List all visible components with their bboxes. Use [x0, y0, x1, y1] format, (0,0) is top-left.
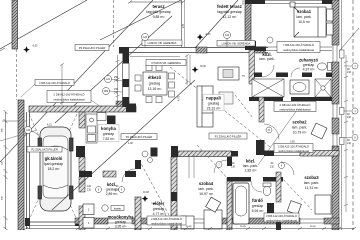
svg-text:210: 210: [231, 166, 236, 169]
window bottom mosokonyha: [108, 218, 132, 220]
svg-text:lam. park.: lam. park.: [259, 57, 274, 61]
door arc garage side: [29, 131, 41, 143]
wire leader 3db box: [21, 84, 35, 97]
door arc szoba3: [281, 162, 294, 175]
svg-text:terasz: terasz: [152, 4, 164, 9]
furniture bed szoba1: [290, 2, 333, 37]
wire garage dashed X: [29, 114, 77, 220]
node level mark -0,03: [197, 33, 211, 40]
wall kozl/wardrobe strip top: [254, 73, 262, 78]
svg-text:11,31 m²: 11,31 m²: [305, 186, 319, 190]
svg-text:3,95 m²: 3,95 m²: [115, 225, 128, 229]
room label eloter: [153, 201, 166, 216]
svg-text:ipari greslap: ipari greslap: [44, 162, 63, 166]
svg-text:210: 210: [115, 189, 120, 192]
furniture shower: [315, 79, 331, 97]
furniture cabinet szoba4: [181, 216, 194, 229]
svg-text:11,12 m²: 11,12 m²: [223, 15, 237, 19]
furniture toilet zuhanyzo: [318, 63, 327, 70]
svg-text:nappali: nappali: [206, 96, 221, 101]
svg-text:AJ1: AJ1: [106, 78, 111, 81]
svg-text:lam. park.: lam. park.: [296, 15, 311, 19]
label box gerenda 2: [217, 41, 255, 47]
svg-text:-0,05: -0,05: [32, 45, 38, 48]
svg-text:greslap: greslap: [153, 207, 165, 211]
label box athidalo 2db left: [47, 91, 91, 103]
room label kozl konyha: [106, 182, 119, 196]
label box athidalo furdo: [264, 213, 299, 222]
svg-text:étkező: étkező: [148, 75, 161, 80]
room label mosokonyha: [108, 215, 134, 229]
dim bottom line: [24, 227, 356, 230]
furniture sofa nappali: [197, 86, 213, 127]
wall garage door: [29, 221, 78, 223]
wire leader P2 box: [0, 130, 37, 141]
label box athidalo entrance: [147, 216, 186, 225]
svg-text:4,70: 4,70: [178, 96, 181, 101]
dim right circle 3: [344, 135, 358, 141]
label box gerenda 1: [142, 40, 182, 46]
svg-text:közl.: közl.: [246, 159, 255, 164]
furniture wardrobe kozl: [252, 79, 284, 97]
dim texts kozl doors: [87, 185, 120, 192]
svg-text:4,10: 4,10: [47, 124, 52, 127]
wall right exterior: [332, 0, 339, 45]
node door circle 9: [279, 163, 285, 169]
room label etkezo: [148, 75, 163, 91]
svg-text:nedvnyílokos kialakítással: nedvnyílokos kialakítással: [53, 98, 84, 102]
svg-text:szoba2: szoba2: [292, 120, 307, 125]
node symbol konyha circle b: [148, 158, 153, 163]
furniture coffee table: [219, 92, 233, 104]
svg-text:greslap: greslap: [103, 132, 115, 136]
node door mark AJ3 garage: [25, 127, 32, 134]
svg-text:fedett terasz: fedett terasz: [217, 4, 242, 9]
wire roof diagonal top-left: [0, 0, 87, 49]
wall szoba1 south: [254, 47, 266, 52]
window bottom szoba4: [186, 218, 210, 220]
svg-text:nedvnyílokos kialakítással: nedvnyílokos kialakítással: [279, 107, 310, 111]
svg-text:lam. park.: lam. park.: [292, 126, 307, 130]
window sill marks right: [340, 50, 345, 145]
window right szoba2 b: [332, 134, 334, 148]
svg-text:szoba3: szoba3: [304, 175, 319, 180]
node door circle szoba2: [266, 127, 272, 133]
svg-text:gk.tároló: gk.tároló: [45, 156, 63, 161]
wire dashed valley szoba2 left: [235, 95, 253, 118]
svg-text:210: 210: [347, 142, 352, 145]
svg-text:konyha: konyha: [101, 126, 116, 131]
wall konyha south: [79, 171, 92, 177]
node symbol szoba1: [267, 37, 273, 43]
dim tick left edge top: [0, 48, 5, 51]
svg-text:nedvnyílokos kialakítással: nedvnyílokos kialakítással: [278, 149, 309, 153]
window right szoba2 a: [332, 104, 334, 118]
wall szoba2/szoba3 divider: [264, 151, 274, 157]
dim chain below top wall: [130, 56, 180, 58]
svg-text:előtér: előtér: [153, 201, 165, 206]
wire leader szoba2: [258, 110, 297, 165]
dim chain terasz wall vertical: [116, 55, 120, 105]
svg-text:210: 210: [347, 71, 352, 74]
label box kazan: [111, 206, 124, 211]
svg-text:1,82 m²: 1,82 m²: [245, 169, 258, 173]
svg-text:greslap: greslap: [252, 204, 264, 208]
svg-text:greslag: greslag: [208, 102, 220, 106]
door arc furdo: [251, 181, 262, 192]
wall zuhanyzo/szoba2: [249, 97, 283, 101]
label box athidalo szoba2 top: [274, 102, 316, 112]
furniture bed szoba3: [315, 195, 331, 214]
svg-text:9,85 m²: 9,85 m²: [153, 15, 166, 19]
furniture cabinet furdo: [267, 203, 274, 215]
room label zuhanyzo: [299, 58, 319, 72]
node window mark AJ1: [105, 76, 123, 83]
door arc kozl a: [262, 65, 274, 77]
wire right outer line: [341, 0, 343, 230]
furniture tv bench: [218, 67, 239, 80]
wall top (terasz face): [129, 47, 268, 49]
room label kozl 3: [243, 159, 258, 173]
svg-text:nedvnyílokos kialakítással: nedvnyílokos kialakítással: [266, 218, 297, 222]
room label kozl mini: [259, 52, 274, 61]
window bottom furdo: [238, 218, 248, 220]
svg-text:4,38: 4,38: [128, 142, 133, 145]
svg-text:mosókonyha: mosókonyha: [108, 215, 134, 220]
node window mark AB2: [103, 88, 123, 95]
room label szoba4: [198, 181, 213, 196]
node window mark AJ4 terasz: [142, 34, 149, 48]
wire roof diagonal garage wing: [52, 80, 195, 210]
wire dashed valley szoba3: [280, 176, 312, 210]
svg-text:szoba4: szoba4: [199, 181, 214, 186]
node door circle 5: [96, 187, 102, 193]
wall szoba4 east: [227, 178, 232, 230]
dim left vertical line: [4, 110, 8, 230]
node window mark AJ4 fedett: [224, 32, 231, 48]
furniture chair szoba2: [311, 123, 327, 139]
room label terasz: [146, 4, 171, 19]
node level mark +-0,00: [192, 65, 207, 73]
wall bottom exterior: [75, 218, 108, 224]
furniture bed szoba4: [204, 210, 222, 229]
furniture chairs etkezo: [135, 65, 175, 103]
node symbol konyha circle: [142, 151, 148, 157]
svg-text:fagyálló greslap: fagyálló greslap: [146, 10, 171, 14]
door arc eloter-kozl: [122, 169, 135, 182]
wire dashed valley elater: [139, 160, 176, 228]
room label konyha: [98, 125, 119, 142]
furniture car: [38, 127, 73, 211]
furniture konyha counter: [86, 113, 106, 144]
wall property bar bottom-left: [18, 100, 24, 230]
svg-text:7,62 m²: 7,62 m²: [103, 137, 116, 141]
svg-text:±0,08: ±0,08: [143, 191, 150, 194]
node pillar etkezo corner: [151, 148, 158, 157]
svg-text:AJ4: AJ4: [225, 34, 230, 37]
dim texts terasz wall: [114, 76, 119, 95]
svg-text:lam. park.: lam. park.: [198, 187, 213, 191]
wire dashed overhang right: [352, 0, 354, 230]
wall property bar top-left: [12, 0, 18, 49]
furniture bathtub furdo: [233, 183, 249, 224]
wire roof diagonal long B: [55, 16, 172, 123]
dim chain nappali west: [185, 54, 190, 85]
svg-text:LUMON VB. GERENDA: LUMON VB. GERENDA: [148, 41, 177, 45]
furniture toilet furdo: [263, 186, 271, 195]
wire leader top right: [340, 28, 359, 50]
svg-text:OT.MON VB. GERENDA: OT.MON VB. GERENDA: [151, 61, 181, 65]
label box gerenda 3: [146, 60, 186, 66]
room label nappali: [203, 95, 224, 111]
svg-text:kazán: kazán: [114, 206, 122, 210]
svg-text:±0,00: ±0,00: [200, 65, 207, 68]
svg-text:10,79 m²: 10,79 m²: [293, 131, 308, 135]
window right szoba1: [332, 45, 334, 62]
svg-text:lam. park.: lam. park.: [243, 164, 258, 168]
svg-text:210: 210: [87, 189, 92, 192]
node level mark eloter: [142, 191, 150, 202]
svg-text:AB2: AB2: [104, 90, 109, 93]
label box P2 pillar garage: [27, 147, 62, 153]
wire roof diagonal fedett terasz: [195, 0, 238, 48]
svg-text:lam. park.: lam. park.: [304, 181, 319, 185]
wall terasz fedett boundary line: [181, 0, 183, 47]
svg-text:18,2 m²: 18,2 m²: [48, 167, 61, 171]
room label furdo: [252, 198, 265, 213]
furniture chair szoba3: [287, 201, 301, 215]
room label szoba3: [304, 175, 319, 190]
wire dashed overhang line left: [16, 49, 18, 100]
wire dashed valley nappali: [170, 67, 270, 147]
label box P3 pillar: [75, 45, 109, 51]
label box P1 pillar: [209, 133, 247, 139]
wire dashed valley szoba4: [197, 145, 250, 203]
svg-text:4,77 m²: 4,77 m²: [153, 212, 166, 216]
svg-text:nedvnyílokos kialakítással: nedvnyílokos kialakítással: [283, 48, 314, 52]
wall furdo/szoba3 divider: [276, 172, 281, 202]
door arc garage-konyha: [87, 128, 101, 142]
label box athidalo 3db: [35, 80, 74, 86]
dim right circle 2: [344, 108, 358, 114]
dim right texts: [347, 68, 352, 145]
svg-text:AJ4: AJ4: [143, 36, 148, 39]
svg-text:-0,03: -0,03: [205, 33, 211, 36]
svg-text:5,94 m²: 5,94 m²: [252, 209, 265, 213]
svg-text:szoba1: szoba1: [297, 9, 312, 14]
furniture boiler: [102, 205, 108, 211]
dim vertical szoba4 hall: [189, 154, 194, 178]
wall fedett terasz / szoba1 divider: [245, 0, 251, 42]
dim garden vline: [60, 63, 64, 105]
svg-text:210: 210: [347, 116, 352, 119]
svg-text:m.ép.: m.ép.: [186, 225, 192, 228]
furniture chair szoba4: [206, 197, 221, 212]
node door circle 7: [216, 162, 222, 168]
furniture etkezo table: [143, 72, 167, 95]
svg-text:10,5 m²: 10,5 m²: [298, 20, 311, 24]
wire roof diagonal terasz: [100, 0, 181, 40]
svg-text:fagyálló greslap: fagyálló greslap: [217, 10, 242, 14]
wall central vertical nappali/kozl: [249, 50, 255, 84]
svg-text:210: 210: [270, 166, 275, 169]
wire thin line left: [2, 120, 26, 122]
dim texts m.ep bottom: [186, 225, 316, 228]
door arc front entrance: [151, 203, 166, 218]
svg-text:13,16 m²: 13,16 m²: [148, 87, 163, 91]
svg-text:zuhanyzó: zuhanyzó: [299, 58, 319, 63]
svg-text:240: 240: [114, 80, 119, 83]
furniture zuhanyzo vanity: [290, 80, 309, 94]
wire leader 2db box: [91, 100, 101, 107]
wall kozl/eloter divider: [135, 160, 141, 169]
wall garage west: [26, 112, 28, 229]
svg-text:AJ3: AJ3: [26, 129, 31, 132]
dim texts kozl3 doors: [231, 162, 275, 169]
dim right circle 1: [344, 63, 358, 69]
svg-text:23,31 m²: 23,31 m²: [207, 107, 222, 111]
label box P2 pillar konyha: [121, 134, 157, 140]
door bottom front entrance: [150, 220, 175, 222]
door arc szoba2: [264, 124, 279, 139]
svg-text:LUMON VB. GERENDA: LUMON VB. GERENDA: [222, 42, 251, 46]
svg-text:fürdő: fürdő: [252, 198, 263, 203]
svg-text:greslap: greslap: [303, 63, 315, 67]
wall furdo north: [227, 177, 251, 182]
wall garage east: [79, 112, 85, 128]
dim chain right interior: [344, 55, 348, 212]
wall terasz west (house west face): [119, 47, 129, 54]
svg-text:greslap: greslap: [115, 220, 127, 224]
wall nappali south (P1): [171, 146, 178, 157]
svg-text:10,97 m²: 10,97 m²: [199, 192, 214, 196]
svg-text:2,89 m²: 2,89 m²: [106, 192, 119, 196]
svg-text:4,37 m²: 4,37 m²: [303, 68, 316, 72]
room label szoba2: [292, 120, 307, 135]
svg-text:nedvnyílokos kialakítással: nedvnyílokos kialakítással: [151, 221, 182, 225]
node level mark -0,05: [23, 45, 38, 53]
dim ticks top szoba1: [243, 0, 251, 5]
door arc kozl b: [291, 68, 300, 77]
dim top line terasz: [128, 1, 185, 4]
wire dashed terasz left edge: [113, 0, 115, 47]
svg-text:3,65: 3,65: [290, 141, 295, 144]
label box athidalo szoba1: [277, 42, 320, 53]
wall szoba2 west: [259, 97, 264, 122]
dim left tiny texts: [2, 128, 4, 200]
wall garage north + konyha north: [29, 106, 136, 112]
svg-text:greslag: greslag: [149, 82, 161, 86]
svg-text:m.ép.: m.ép.: [240, 225, 246, 228]
door arc szoba4: [214, 160, 227, 173]
room label fedett terasz: [217, 4, 242, 19]
wire roof diagonal long A: [0, 0, 153, 162]
wall eloter/szoba4 divider: [171, 157, 177, 230]
room label szoba1: [296, 9, 311, 24]
svg-text:240: 240: [114, 92, 119, 95]
label box athidalo szoba2 bottom: [274, 144, 313, 153]
wall szoba1 top: [245, 0, 265, 4]
svg-text:m.ép.: m.ép.: [310, 225, 316, 228]
svg-text:275: 275: [182, 23, 185, 28]
node door circle 6: [119, 187, 125, 193]
room label gk.tarolo: [44, 156, 63, 171]
furniture mosokonyha machines: [83, 204, 94, 228]
window bottom szoba3: [300, 218, 324, 220]
